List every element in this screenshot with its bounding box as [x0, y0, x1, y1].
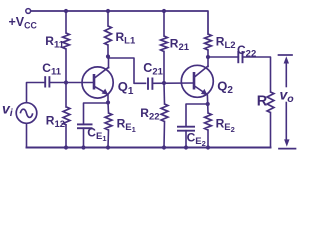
- transistor Q1: [82, 67, 113, 98]
- svg-text:R: R: [257, 93, 268, 109]
- wire collector to C21: [108, 58, 146, 83]
- resistor RL2: [205, 34, 212, 50]
- resistor R load: [267, 92, 274, 113]
- resistor R11: [65, 11, 67, 33]
- wire source top to C11: [27, 83, 46, 103]
- Vcc rail wire: [31, 11, 208, 34]
- resistor R22: [163, 83, 166, 104]
- wire C22 to load R: [243, 57, 271, 92]
- ground rail: [27, 147, 271, 149]
- node: base Q2 / R21-R22 junction: [162, 81, 166, 85]
- Vcc terminal: [26, 9, 31, 14]
- capacitor C22: [237, 51, 239, 63]
- wire source bottom to ground rail: [26, 123, 28, 147]
- emitter branch Q2: node: [206, 102, 210, 106]
- source vi: [16, 103, 37, 124]
- node: R11 top: [64, 9, 68, 13]
- wire collector to C22: [208, 56, 238, 58]
- node: Q1 collector: [106, 54, 110, 58]
- wire C21 to Q2 base: [152, 82, 194, 84]
- node: RL1 top: [106, 9, 110, 13]
- resistor R12: [65, 83, 67, 108]
- transistor Q2: [181, 65, 213, 97]
- capacitor C21: [147, 78, 149, 90]
- vo dimension arrow: [279, 54, 293, 56]
- resistor RL1: [107, 11, 109, 26]
- node: R21 top: [162, 9, 166, 13]
- wire to CE2: [186, 104, 208, 127]
- node: base Q1 / R11-R12 junction: [64, 80, 68, 84]
- capacitor C11: [44, 76, 46, 87]
- capacitor CE2: [177, 126, 195, 128]
- emitter branch Q1: node: [106, 100, 110, 104]
- resistor RE1: [107, 103, 110, 114]
- wire to CE1: [84, 103, 109, 124]
- node: Q2 collector: [206, 55, 210, 59]
- resistor RE2: [207, 104, 209, 113]
- capacitor CE1: [77, 123, 93, 125]
- wire C11 to Q1 base: [49, 82, 94, 84]
- resistor R21: [163, 11, 165, 36]
- ground nodes: [64, 145, 68, 149]
